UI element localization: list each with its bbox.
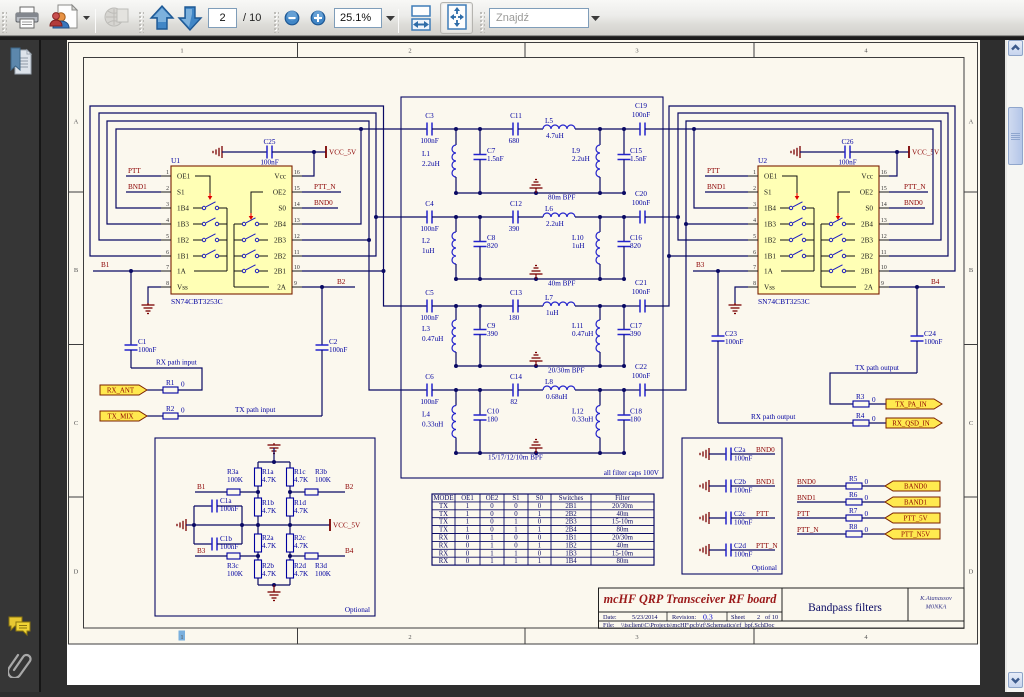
resistor R2c <box>287 534 294 552</box>
svg-text:0: 0 <box>466 535 470 542</box>
print button <box>13 0 41 36</box>
svg-text:R3: R3 <box>856 393 865 401</box>
svg-text:2A: 2A <box>864 284 874 292</box>
U1 pin 12 2B3 <box>292 239 302 241</box>
U2 OE2 select line <box>838 192 850 213</box>
svg-text:BND1: BND1 <box>756 478 775 486</box>
svg-text:13: 13 <box>294 218 300 224</box>
capacitor C23 <box>717 271 719 336</box>
svg-text:OE1: OE1 <box>461 495 473 502</box>
svg-text:4.7K: 4.7K <box>262 476 277 484</box>
svg-text:RX: RX <box>439 558 449 565</box>
svg-text:Vss: Vss <box>177 284 188 292</box>
svg-text:M0NKA: M0NKA <box>925 604 947 611</box>
sheet inner border <box>84 58 965 629</box>
wire <box>624 389 640 391</box>
svg-text:C2c: C2c <box>734 510 746 518</box>
svg-text:100nF: 100nF <box>420 225 438 233</box>
svg-text:B4: B4 <box>345 547 354 555</box>
svg-text:14: 14 <box>294 202 300 208</box>
wire <box>797 533 846 535</box>
sidebar pages icon <box>8 46 34 78</box>
svg-text:0: 0 <box>865 494 869 502</box>
svg-text:1B4: 1B4 <box>565 558 577 565</box>
svg-text:C15: C15 <box>630 147 642 155</box>
wire to Vcc pin16 <box>889 152 897 176</box>
wire <box>456 128 480 130</box>
svg-text:15-10m: 15-10m <box>612 519 634 526</box>
svg-text:C20: C20 <box>635 190 647 198</box>
U1 pin 7 1A <box>161 270 171 272</box>
node junction <box>622 451 626 455</box>
svg-text:40m BPF: 40m BPF <box>548 280 575 288</box>
port RX_QSD_IN <box>886 418 942 428</box>
svg-text:1B1: 1B1 <box>177 253 189 261</box>
svg-text:1: 1 <box>514 558 517 565</box>
svg-text:1B3: 1B3 <box>565 550 577 557</box>
inductor L8 <box>543 386 575 390</box>
svg-text:8: 8 <box>753 281 756 287</box>
capacitor C7 shunt <box>479 129 481 155</box>
svg-text:4.7K: 4.7K <box>294 570 309 578</box>
node junction <box>598 388 602 392</box>
node junction <box>534 191 538 195</box>
svg-text:16: 16 <box>294 170 300 176</box>
wire <box>624 305 640 307</box>
svg-text:0: 0 <box>514 535 518 542</box>
svg-text:100nF: 100nF <box>260 159 278 167</box>
svg-text:C14: C14 <box>510 373 522 381</box>
U2 internal mux switches left group <box>780 207 789 209</box>
svg-text:C12: C12 <box>510 200 522 208</box>
svg-text:Vcc: Vcc <box>861 173 873 181</box>
wire 1B2 to 40m BPF and 2B2 <box>99 113 376 256</box>
svg-text:80m: 80m <box>616 527 629 534</box>
svg-text:1: 1 <box>466 503 469 510</box>
U2 pin 1 OE1 <box>748 175 758 177</box>
svg-text:VCC_5V: VCC_5V <box>912 149 940 157</box>
node junction <box>598 191 602 195</box>
svg-text:A: A <box>74 119 79 126</box>
wire <box>709 453 726 455</box>
node junction <box>454 127 458 131</box>
svg-text:OE1: OE1 <box>764 173 778 181</box>
svg-text:R6: R6 <box>849 491 858 499</box>
capacitor C2d <box>725 544 727 557</box>
node junction <box>478 215 482 219</box>
svg-text:2B3: 2B3 <box>861 237 873 245</box>
svg-text:1: 1 <box>490 542 493 549</box>
node junction <box>598 451 602 455</box>
wire 1B4 to 80m BPF and 2B4 <box>116 129 401 208</box>
capacitor C5 <box>426 300 428 313</box>
svg-text:4.7K: 4.7K <box>262 542 277 550</box>
svg-text:0: 0 <box>466 558 470 565</box>
svg-text:PTT: PTT <box>797 510 810 518</box>
svg-text:C5: C5 <box>425 289 434 297</box>
svg-text:K.Atanassov: K.Atanassov <box>919 595 952 602</box>
node junction <box>478 364 482 368</box>
svg-text:100nF: 100nF <box>420 398 438 406</box>
U2 pin 16 Vcc <box>879 175 889 177</box>
capacitor C11 <box>512 123 514 136</box>
svg-text:20/30m BPF: 20/30m BPF <box>548 367 585 375</box>
wire <box>624 128 640 130</box>
capacitor C9 shunt <box>479 306 481 330</box>
svg-text:R3d: R3d <box>315 562 327 570</box>
svg-text:File:: File: <box>603 622 615 629</box>
svg-text:R3a: R3a <box>227 468 239 476</box>
svg-text:RX: RX <box>439 550 449 557</box>
svg-text:C24: C24 <box>924 330 936 338</box>
svg-text:0: 0 <box>538 519 542 526</box>
svg-text:C3: C3 <box>425 112 434 120</box>
svg-text:Sheet: Sheet <box>731 614 745 621</box>
capacitor C1a <box>193 506 195 544</box>
U2 pin 13 2B4 <box>879 223 889 225</box>
svg-text:3: 3 <box>635 634 638 641</box>
svg-text:820: 820 <box>487 242 498 250</box>
op-amp U2 body <box>758 166 879 294</box>
svg-text:7: 7 <box>166 265 169 271</box>
node junction <box>534 451 538 455</box>
wire filter input row 80m BPF <box>401 128 427 130</box>
node junction <box>240 523 244 527</box>
svg-text:100nF: 100nF <box>220 543 238 551</box>
create pdf button <box>48 0 82 36</box>
svg-text:1: 1 <box>538 542 541 549</box>
svg-text:B: B <box>74 267 79 274</box>
op-amp U1 body <box>171 166 292 294</box>
svg-text:6: 6 <box>753 250 756 256</box>
svg-text:SN74CBT3253C: SN74CBT3253C <box>171 297 223 306</box>
svg-text:9: 9 <box>294 281 297 287</box>
U2 pin 3 1B4 <box>748 207 758 209</box>
svg-text:180: 180 <box>487 416 498 424</box>
wire filter input row 15/17/12/10m BPF <box>401 389 427 391</box>
power VCC_5V <box>329 519 331 531</box>
svg-text:2B2: 2B2 <box>274 253 286 261</box>
wire filter input row 40m BPF <box>401 216 427 218</box>
svg-text:82: 82 <box>510 398 518 406</box>
optional decoupling caps box <box>682 438 782 574</box>
wire <box>432 216 456 218</box>
svg-text:40m: 40m <box>616 511 629 518</box>
schematic sheet background <box>67 40 980 644</box>
svg-text:PTT_5V: PTT_5V <box>903 516 927 523</box>
svg-text:Bandpass filters: Bandpass filters <box>808 602 882 614</box>
svg-text:15: 15 <box>294 186 300 192</box>
capacitor C2 <box>321 287 323 345</box>
svg-text:C8: C8 <box>487 234 496 242</box>
svg-text:R3b: R3b <box>315 468 327 476</box>
node junction VCC <box>312 150 316 154</box>
svg-text:B4: B4 <box>931 278 940 286</box>
wire ground rail <box>456 192 624 194</box>
svg-text:TX path input: TX path input <box>235 406 275 414</box>
svg-text:11: 11 <box>881 250 887 256</box>
U1 internal mux switches right group <box>234 223 242 225</box>
svg-text:BND1: BND1 <box>707 183 726 191</box>
svg-text:R2b: R2b <box>262 562 274 570</box>
svg-text:100nF: 100nF <box>838 159 856 167</box>
svg-text:R3c: R3c <box>227 562 239 570</box>
svg-text:0: 0 <box>490 503 494 510</box>
svg-text:D: D <box>74 569 79 576</box>
svg-text:OE2: OE2 <box>860 189 874 197</box>
wire <box>600 216 624 218</box>
ground (power, left of C25) <box>221 146 223 158</box>
svg-text:0: 0 <box>490 527 494 534</box>
svg-text:R1c: R1c <box>294 468 306 476</box>
ground (top of network) <box>273 443 275 445</box>
wire <box>645 128 663 130</box>
node junction <box>622 191 626 195</box>
node junction <box>622 127 626 131</box>
resistor R7 <box>846 515 862 521</box>
node junction <box>598 277 602 281</box>
svg-text:C11: C11 <box>510 112 522 120</box>
svg-text:1: 1 <box>538 511 541 518</box>
wire <box>456 216 480 218</box>
svg-text:C7: C7 <box>487 147 496 155</box>
U1 pin 9 2A <box>292 286 302 288</box>
power VCC_5V <box>908 146 910 158</box>
svg-text:VCC_5V: VCC_5V <box>333 522 361 530</box>
wire <box>518 305 543 307</box>
capacitor C2b <box>725 480 727 493</box>
wire <box>147 389 163 391</box>
svg-text:Vss: Vss <box>764 284 775 292</box>
resistor R3b <box>290 491 305 493</box>
wire <box>456 389 480 391</box>
optional pull resistor network box <box>155 438 375 616</box>
wire <box>709 517 726 519</box>
svg-text:2: 2 <box>753 186 756 192</box>
U2 pin 9 2A <box>879 286 889 288</box>
capacitor C2c <box>725 512 727 525</box>
svg-text:1: 1 <box>514 550 517 557</box>
svg-text:C2: C2 <box>329 338 338 346</box>
port PTT_5V <box>885 513 940 523</box>
svg-text:0: 0 <box>490 519 494 526</box>
wire <box>797 485 846 487</box>
zoom out <box>282 0 302 36</box>
svg-text:0: 0 <box>466 542 470 549</box>
svg-text:4.7K: 4.7K <box>262 507 277 515</box>
svg-text:100nF: 100nF <box>632 111 650 119</box>
svg-text:4: 4 <box>753 218 756 224</box>
svg-text:RX path output: RX path output <box>751 413 795 421</box>
U1 pin 10 2B1 <box>292 270 302 272</box>
svg-text:B: B <box>969 267 974 274</box>
wire <box>862 517 885 519</box>
resistor R1c <box>289 462 291 468</box>
port BAND1 <box>885 497 940 507</box>
U1 pin 6 1B1 <box>161 255 171 257</box>
node junction <box>288 523 292 527</box>
wire <box>862 485 885 487</box>
svg-text:of 10: of 10 <box>765 614 778 621</box>
svg-text:1: 1 <box>753 170 756 176</box>
svg-text:100nF: 100nF <box>632 372 650 380</box>
svg-text:1uH: 1uH <box>572 242 584 250</box>
svg-text:2B4: 2B4 <box>274 221 286 229</box>
wire <box>869 403 886 405</box>
U1 pin 13 2B4 <box>292 223 302 225</box>
U2 pin 8 Vss <box>748 286 758 288</box>
svg-text:R2c: R2c <box>294 534 306 542</box>
svg-text:B2: B2 <box>345 483 354 491</box>
wire bottom rail <box>258 584 290 586</box>
wire <box>645 305 663 307</box>
svg-text:TX_MIX: TX_MIX <box>107 414 133 421</box>
wire ground rail <box>456 365 624 367</box>
node junction <box>454 304 458 308</box>
svg-text:R2a: R2a <box>262 534 274 542</box>
svg-text:L4: L4 <box>422 411 430 419</box>
node junction <box>478 127 482 131</box>
node junction <box>478 451 482 455</box>
svg-text:0: 0 <box>538 550 542 557</box>
svg-text:1B1: 1B1 <box>565 535 576 542</box>
wire 2B3 to 15-10m BPF and 1B3 <box>663 121 941 390</box>
resistor R5 <box>846 483 862 489</box>
svg-text:0.68uH: 0.68uH <box>546 393 567 401</box>
wire <box>432 389 456 391</box>
svg-text:C22: C22 <box>635 363 647 371</box>
fit width button <box>408 0 434 36</box>
wire <box>850 151 909 153</box>
wire filter input row 20/30m BPF <box>401 305 427 307</box>
svg-text:100nF: 100nF <box>138 346 156 354</box>
capacitor C1 <box>130 271 132 345</box>
wire <box>480 216 513 218</box>
resistor R2b <box>255 560 262 578</box>
resistor R6 <box>846 499 862 505</box>
svg-text:Date:: Date: <box>603 614 617 621</box>
title block <box>599 588 965 628</box>
svg-text:BND0: BND0 <box>797 478 816 486</box>
resistor R3c <box>227 553 240 559</box>
svg-text:100nF: 100nF <box>220 505 238 513</box>
U2 pin 5 1B2 <box>748 239 758 241</box>
sidebar paperclip icon <box>8 650 32 678</box>
svg-text:L1: L1 <box>422 150 430 158</box>
wire <box>518 389 543 391</box>
wire <box>575 128 600 130</box>
svg-text:C9: C9 <box>487 322 496 330</box>
wire 1B1 to 20/30m BPF and 2B1 <box>90 106 401 306</box>
wire <box>731 517 775 519</box>
svg-text:R8: R8 <box>849 523 858 531</box>
svg-text:1: 1 <box>538 558 541 565</box>
port RX_ANT <box>100 385 147 395</box>
svg-text:15/17/12/10m BPF: 15/17/12/10m BPF <box>488 454 543 462</box>
svg-text:BND0: BND0 <box>756 446 775 454</box>
svg-text:390: 390 <box>509 225 520 233</box>
svg-text:2B1: 2B1 <box>274 268 286 276</box>
svg-text:1: 1 <box>166 170 169 176</box>
svg-text:A: A <box>969 119 974 126</box>
capacitor C24 <box>916 287 918 336</box>
svg-text:2B1: 2B1 <box>565 503 576 510</box>
svg-text:C16: C16 <box>630 234 642 242</box>
svg-text:OE2: OE2 <box>486 495 499 502</box>
svg-text:2: 2 <box>408 48 411 55</box>
svg-text:11: 11 <box>294 250 300 256</box>
wire <box>869 422 886 424</box>
svg-text:Revision:: Revision: <box>672 614 696 621</box>
svg-text:RX_QSD_IN: RX_QSD_IN <box>892 421 930 428</box>
svg-text:680: 680 <box>509 137 520 145</box>
resistor R4 <box>853 420 869 426</box>
svg-text:C2d: C2d <box>734 542 746 550</box>
svg-text:1B1: 1B1 <box>764 253 776 261</box>
svg-text:1.5nF: 1.5nF <box>487 155 504 163</box>
wire <box>518 128 543 130</box>
resistor R1b <box>255 498 262 516</box>
svg-text:C1b: C1b <box>220 535 232 543</box>
svg-text:B1: B1 <box>101 261 110 269</box>
svg-text:PTT_N: PTT_N <box>797 526 819 534</box>
svg-text:L2: L2 <box>422 237 430 245</box>
svg-text:C: C <box>969 420 973 427</box>
svg-text:16: 16 <box>881 170 887 176</box>
svg-text:2.2uH: 2.2uH <box>572 155 590 163</box>
svg-text:10: 10 <box>294 265 300 271</box>
svg-text:4.7K: 4.7K <box>294 507 309 515</box>
svg-text:100nF: 100nF <box>420 314 438 322</box>
U1 pin 16 Vcc <box>292 175 302 177</box>
svg-text:390: 390 <box>487 330 498 338</box>
svg-text:1B4: 1B4 <box>177 205 189 213</box>
svg-text:C6: C6 <box>425 373 434 381</box>
svg-text:TX: TX <box>439 511 448 518</box>
svg-text:1A: 1A <box>177 268 187 276</box>
svg-text:B2: B2 <box>337 278 346 286</box>
wire <box>575 305 600 307</box>
svg-text:BAND1: BAND1 <box>904 500 928 507</box>
svg-text:S0: S0 <box>278 205 286 213</box>
svg-text:2B2: 2B2 <box>861 253 873 261</box>
wire <box>432 128 456 130</box>
U2 pin 6 1B1 <box>748 255 758 257</box>
svg-text:0: 0 <box>872 396 876 404</box>
svg-text:L9: L9 <box>572 147 580 155</box>
svg-text:100nF: 100nF <box>632 199 650 207</box>
svg-text:1: 1 <box>538 527 541 534</box>
node junction <box>478 277 482 281</box>
disabled collaborate button <box>102 0 132 36</box>
capacitor C17 shunt <box>623 306 625 330</box>
svg-text:0: 0 <box>514 503 518 510</box>
ground earth <box>535 361 537 366</box>
svg-text:1: 1 <box>490 558 493 565</box>
svg-text:RX: RX <box>439 542 449 549</box>
power VCC_5V <box>325 146 327 158</box>
ground (Vss U2) <box>735 287 748 305</box>
inductor L11 shunt <box>599 306 601 320</box>
svg-text:390: 390 <box>630 330 641 338</box>
svg-text:1: 1 <box>514 519 517 526</box>
node junction <box>598 127 602 131</box>
svg-text:1B2: 1B2 <box>764 237 776 245</box>
node junction <box>454 277 458 281</box>
svg-text:12: 12 <box>294 234 300 240</box>
node junction <box>534 364 538 368</box>
svg-text:0: 0 <box>514 511 518 518</box>
